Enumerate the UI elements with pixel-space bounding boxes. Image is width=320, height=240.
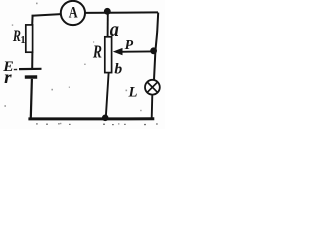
wire left vertical upper bbox=[31, 15, 33, 26]
lamp L circle bbox=[145, 80, 160, 95]
ammeter U1 circle bbox=[61, 1, 85, 25]
lamp X stroke 1 bbox=[147, 82, 157, 92]
svg-text:1: 1 bbox=[20, 35, 25, 46]
lamp X stroke 2 bbox=[147, 82, 157, 92]
battery small dash bbox=[14, 69, 17, 71]
node junction bottom bbox=[102, 115, 109, 122]
wire left vertical lower bbox=[31, 79, 32, 118]
node junction top bbox=[104, 8, 111, 15]
svg-text:L: L bbox=[128, 85, 138, 101]
wire right vertical bbox=[154, 13, 158, 80]
wire left vertical mid bbox=[31, 52, 33, 68]
svg-text:A: A bbox=[69, 4, 78, 21]
wire right vertical below lamp bbox=[151, 95, 154, 119]
noise specks bbox=[4, 3, 141, 125]
wire middle branch upper bbox=[107, 12, 109, 37]
wire middle branch lower bbox=[106, 73, 109, 118]
svg-text:b: b bbox=[114, 62, 122, 77]
resistor R1 bbox=[26, 25, 33, 52]
wire top-left horizontal bbox=[32, 14, 61, 16]
slider wiper arrow P bbox=[113, 48, 123, 55]
battery long plate bbox=[19, 68, 42, 70]
battery short plate bbox=[25, 75, 37, 78]
svg-text:P: P bbox=[125, 37, 134, 52]
svg-text:r: r bbox=[4, 68, 12, 87]
slider wire bbox=[122, 50, 154, 52]
svg-text:R: R bbox=[92, 43, 102, 62]
node junction right bbox=[150, 47, 157, 54]
wire top-right horizontal bbox=[85, 11, 158, 14]
rheostat R bbox=[105, 37, 112, 73]
wire bottom bbox=[28, 117, 154, 120]
